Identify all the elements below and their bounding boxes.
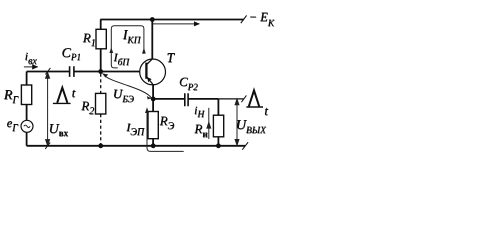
- wire base lead: [101, 71, 147, 73]
- node base junction: [98, 69, 103, 74]
- node collector-rail junction: [150, 17, 155, 22]
- transistor Q collector lead: [151, 20, 153, 60]
- wire CP2 to RN: [188, 98, 218, 100]
- resistor RG: [21, 85, 31, 105]
- waveform pulse left: [53, 88, 71, 104]
- arrow i_N: [207, 108, 211, 139]
- terminal slash input top: [45, 68, 50, 75]
- arrowhead U_BE at base end: [102, 73, 108, 77]
- transistor T body circle: [140, 59, 166, 85]
- wire R1 to base node: [100, 49, 102, 72]
- label I_EP: [126, 120, 144, 135]
- label U_BE: [113, 86, 134, 102]
- wire eG to bottom rail: [26, 132, 28, 146]
- label i_vx: [25, 49, 37, 64]
- terminal slash bottom right: [242, 142, 248, 150]
- arrowhead I_bP up: [109, 47, 113, 53]
- arrow U_vx line: [46, 73, 50, 146]
- arrow U_BE curve: [104, 75, 152, 98]
- terminal slash top right: [241, 15, 247, 23]
- source eG: [21, 120, 33, 132]
- wire input top: [27, 71, 70, 73]
- wire top rail: [100, 19, 244, 21]
- capacitor CP1: [70, 66, 74, 77]
- current path I_EP: [147, 111, 184, 151]
- label I_bP: [114, 50, 130, 65]
- label R_2: [81, 98, 94, 114]
- label C_P1: [62, 46, 81, 62]
- label -E_K: [249, 10, 275, 25]
- label U_vyx: [236, 118, 266, 134]
- node emitter junction: [151, 97, 156, 102]
- label R_1: [83, 30, 96, 46]
- wire RN to bottom rail: [217, 137, 219, 146]
- resistor R2 dashed leads: [96, 74, 106, 146]
- waveform pulse right: [246, 90, 263, 107]
- arrow i_vx: [24, 66, 38, 68]
- wire RG to eG: [26, 105, 28, 121]
- resistor RE: [148, 112, 158, 139]
- label C_P2: [179, 74, 198, 90]
- label t right: [264, 103, 268, 119]
- transistor T base bar: [145, 63, 147, 79]
- terminal slash input bottom: [45, 142, 50, 149]
- label t left: [72, 85, 76, 101]
- wire CP1 to base node: [74, 71, 101, 73]
- transistor T collector stroke: [146, 59, 152, 65]
- wire emitter to CP2: [153, 98, 185, 100]
- current loop I_KP / I_bP staple: [111, 26, 144, 68]
- wire bottom rail: [27, 145, 245, 147]
- arrowhead I_EP up: [145, 107, 149, 113]
- label R_G: [4, 88, 18, 104]
- wire emitter node to RE: [152, 99, 154, 112]
- transistor emitter lead: [152, 85, 154, 99]
- label T: [167, 50, 175, 66]
- capacitor CP2: [185, 93, 188, 106]
- label R_E: [160, 113, 175, 129]
- wire output stub: [218, 98, 244, 100]
- transistor T emitter stroke: [146, 76, 153, 84]
- node R2-bottom rail junction: [98, 143, 103, 148]
- arrowhead I_KP up: [142, 48, 146, 54]
- label I_KP: [123, 27, 141, 43]
- wire RN top lead: [217, 99, 219, 115]
- label i_N: [194, 103, 204, 118]
- node RE-bottom rail junction: [151, 143, 156, 148]
- arrowhead U_BE at emitter end: [147, 96, 152, 99]
- arrow U_vyx line: [235, 99, 239, 145]
- arrow rail current: [153, 23, 200, 25]
- label U_vx: [49, 122, 69, 138]
- node RN-bottom rail junction: [216, 143, 221, 148]
- label R_N: [194, 121, 207, 137]
- terminal slash output top: [241, 95, 246, 102]
- wire RE to bottom rail: [152, 139, 154, 146]
- wire rail to R1: [100, 20, 102, 30]
- resistor R1: [96, 29, 106, 49]
- transistor PNP emitter arrow: [147, 77, 152, 82]
- resistor RN: [213, 115, 223, 137]
- wire generator branch top: [26, 72, 28, 86]
- label e_G: [7, 116, 18, 131]
